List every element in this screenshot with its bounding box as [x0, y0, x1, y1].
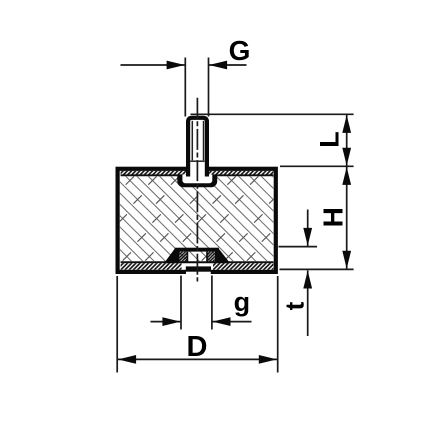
svg-text:H: H [318, 207, 349, 227]
svg-text:D: D [187, 331, 208, 363]
svg-text:L: L [315, 131, 345, 148]
svg-text:g: g [234, 287, 251, 317]
svg-text:t: t [279, 301, 309, 310]
svg-text:G: G [229, 35, 251, 66]
